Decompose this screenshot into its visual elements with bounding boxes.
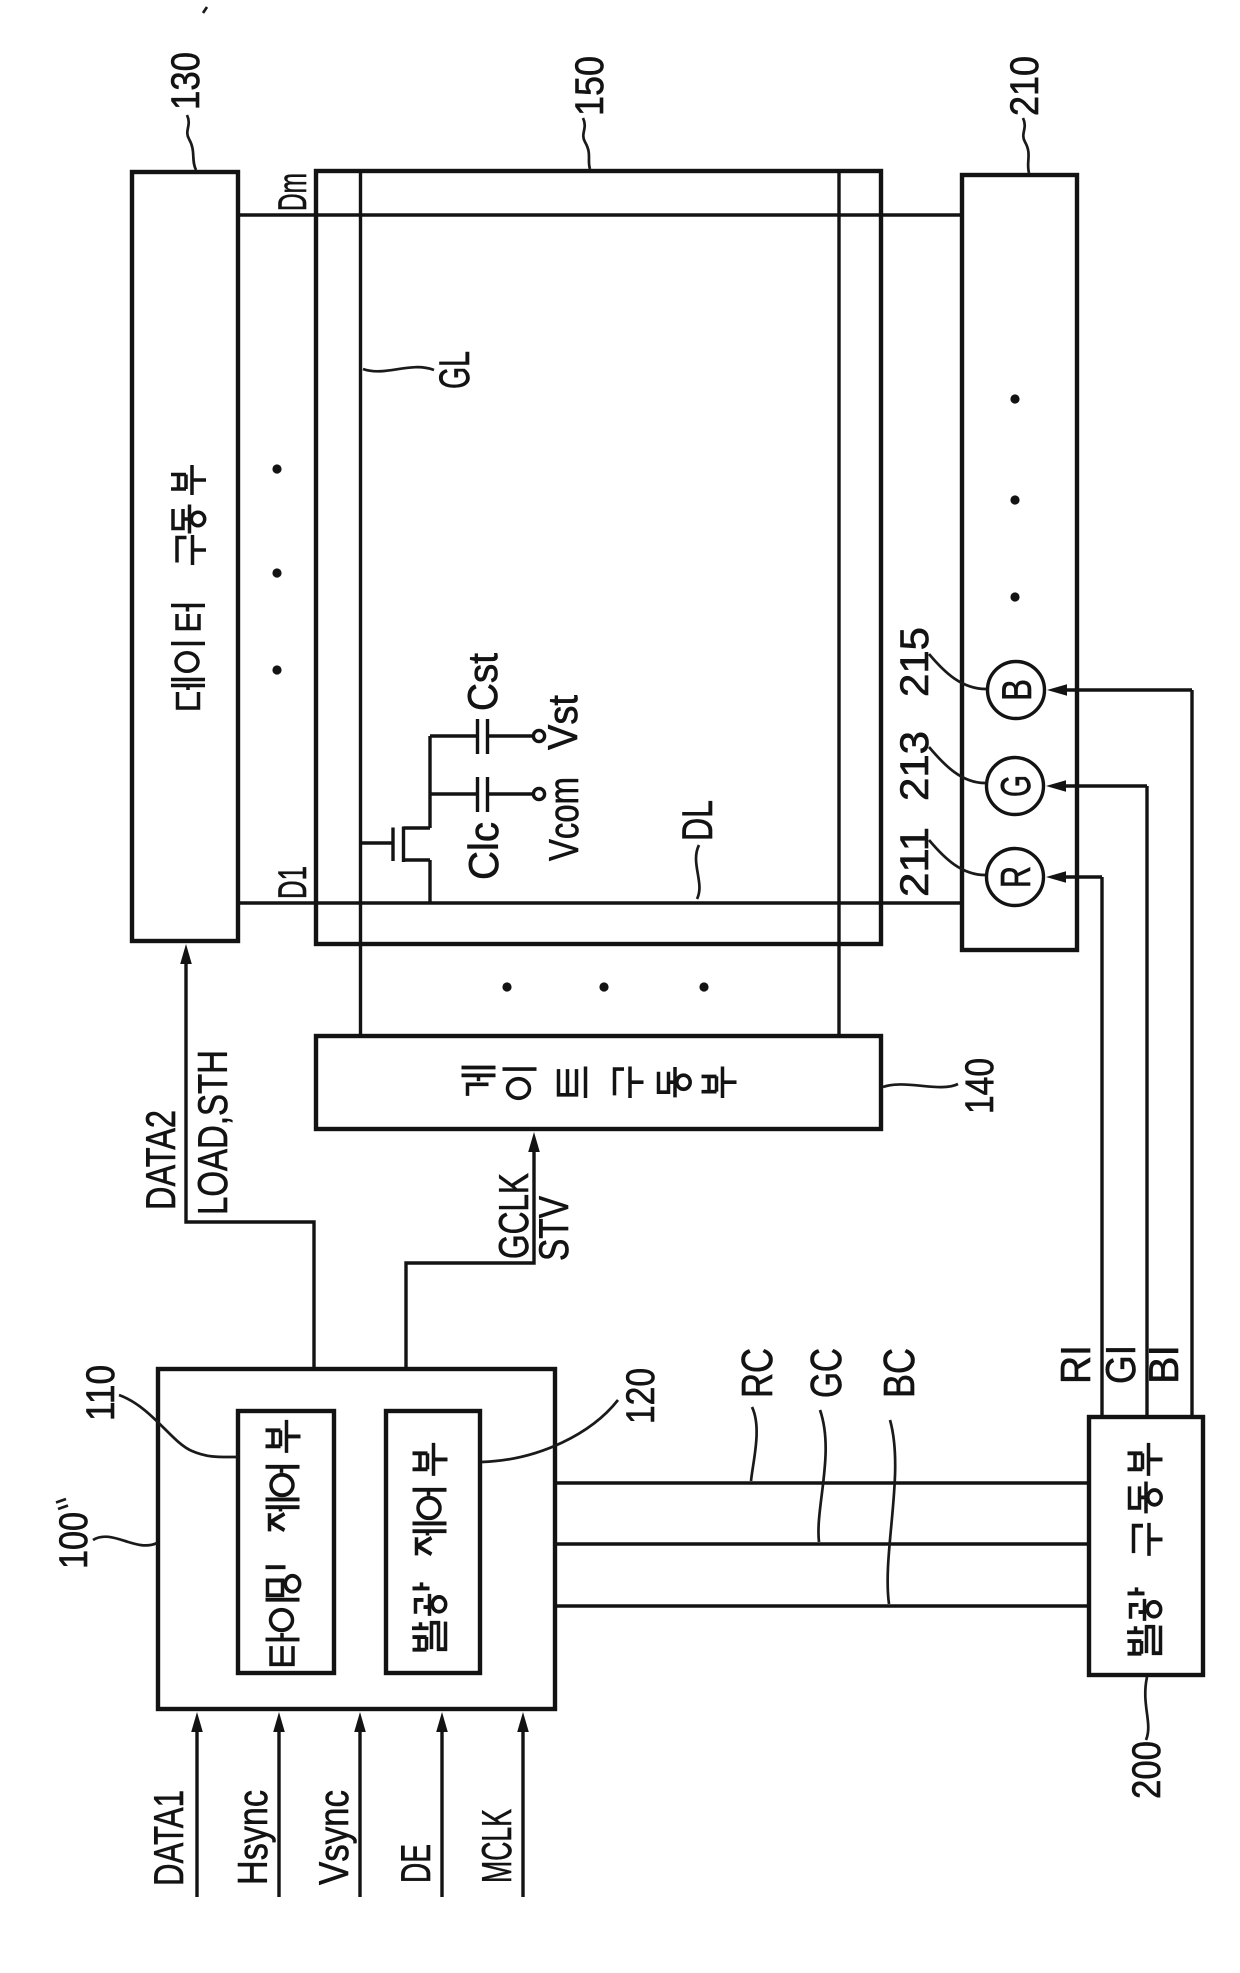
svg-text:DATA1: DATA1 (145, 1790, 192, 1886)
svg-text:DL: DL (674, 800, 722, 841)
svg-text:B: B (993, 679, 1040, 701)
svg-text:210: 210 (1003, 56, 1047, 116)
svg-text:RI: RI (1052, 1345, 1099, 1384)
svg-text:200: 200 (1125, 1741, 1169, 1799)
svg-text:110: 110 (79, 1365, 123, 1421)
svg-text:Vsync: Vsync (310, 1790, 357, 1885)
svg-text:G: G (992, 775, 1039, 797)
svg-text:Vst: Vst (539, 695, 586, 750)
svg-text:MCLK: MCLK (473, 1809, 520, 1883)
svg-text:LOAD,STH: LOAD,STH (189, 1050, 236, 1215)
svg-text:STV: STV (530, 1196, 577, 1261)
svg-text:BI: BI (1140, 1345, 1187, 1384)
svg-text:150: 150 (568, 56, 612, 116)
svg-text:Dm: Dm (271, 173, 315, 211)
svg-text:GL: GL (431, 351, 479, 389)
svg-text:Clc: Clc (460, 822, 507, 880)
svg-text:100: 100 (52, 1512, 96, 1569)
svg-text:213: 213 (893, 731, 937, 801)
svg-text:140: 140 (958, 1058, 1002, 1114)
svg-text:215: 215 (893, 627, 937, 697)
svg-text:BC: BC (875, 1348, 924, 1398)
svg-text:Hsync: Hsync (229, 1790, 276, 1885)
svg-text:D1: D1 (271, 866, 315, 899)
svg-text:R: R (992, 866, 1039, 888)
svg-text:130: 130 (164, 52, 208, 110)
svg-text:120: 120 (619, 1368, 663, 1424)
svg-text:GI: GI (1097, 1345, 1144, 1384)
svg-text:GC: GC (802, 1348, 851, 1398)
svg-text:Cst: Cst (459, 653, 506, 711)
svg-text:Vcom: Vcom (540, 777, 587, 861)
svg-text:DE: DE (392, 1844, 439, 1883)
svg-text:DATA2: DATA2 (137, 1110, 184, 1210)
svg-text:RC: RC (733, 1348, 782, 1398)
svg-text:211: 211 (893, 827, 937, 897)
